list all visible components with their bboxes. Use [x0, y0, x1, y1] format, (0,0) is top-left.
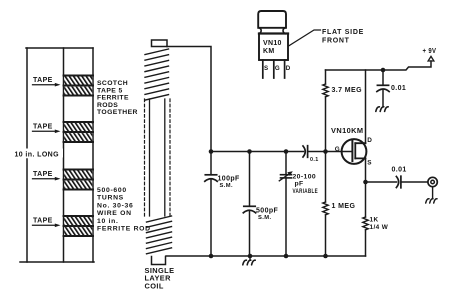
- wire: [325, 152, 327, 203]
- TAPE label 4 arrow: [33, 224, 61, 228]
- bypass capacitor C5 0.01: [377, 85, 389, 91]
- svg-text:0.1: 0.1: [310, 157, 319, 163]
- svg-text:pF: pF: [295, 181, 304, 188]
- svg-text:TAPE: TAPE: [33, 124, 53, 131]
- svg-text:S: S: [367, 160, 372, 167]
- svg-text:TAPE: TAPE: [33, 171, 53, 178]
- svg-text:1 MEG: 1 MEG: [332, 203, 356, 210]
- jack ground wire: [432, 187, 434, 199]
- wire: [249, 211, 251, 256]
- svg-text:G: G: [335, 146, 340, 153]
- coil top lead wire: [167, 47, 211, 152]
- tape band pair 4 (hatched): [64, 216, 94, 236]
- +9V arrow terminal: [428, 56, 434, 61]
- wire: [382, 70, 384, 85]
- node: C2 top: [247, 149, 252, 154]
- coil lower turns: [147, 216, 172, 254]
- junction dots: [209, 68, 386, 259]
- svg-text:KM: KM: [263, 48, 275, 55]
- resistor R1 3.7 MEG: [323, 84, 328, 97]
- svg-text:D: D: [286, 65, 291, 72]
- wire: [365, 230, 367, 256]
- svg-text:FERRITE: FERRITE: [97, 95, 129, 102]
- output coupling capacitor C6 0.01: [396, 176, 401, 188]
- leader line to FLAT SIDE FRONT: [289, 30, 321, 46]
- TAPE label 2 arrow: [33, 130, 61, 134]
- svg-text:500pF: 500pF: [256, 208, 279, 215]
- tape band pair 2 (hatched): [64, 122, 94, 142]
- node: C2 bottom / ground: [248, 254, 253, 259]
- source wire: [365, 158, 367, 217]
- TAPE label 3 arrow: [33, 177, 61, 181]
- svg-text:FERRITE ROD: FERRITE ROD: [97, 226, 151, 233]
- svg-text:TURNS: TURNS: [97, 195, 124, 202]
- dimension line (10 in. overall): [26, 48, 28, 148]
- TAPE label 1 arrow: [33, 83, 61, 87]
- svg-text:COIL: COIL: [145, 281, 164, 290]
- node: R2 bottom: [323, 254, 328, 259]
- svg-text:VN10KM: VN10KM: [331, 126, 363, 135]
- svg-text:100pF: 100pF: [218, 176, 241, 183]
- capacitor C2 500pF S.M.: [243, 206, 255, 213]
- top end line of rod assembly: [26, 47, 93, 49]
- svg-text:500-600: 500-600: [97, 187, 127, 194]
- coil form solid lines: [150, 99, 165, 216]
- variable capacitor C3 20-100pF: [279, 171, 293, 181]
- wire: [325, 215, 327, 256]
- wire: [382, 90, 384, 107]
- bottom end line of rod assembly: [20, 261, 94, 263]
- output jack J1: [428, 177, 437, 186]
- wire: [249, 152, 251, 207]
- svg-text:1K: 1K: [370, 217, 379, 224]
- Q1 channel bar and leads: [354, 143, 356, 158]
- svg-text:10 in.: 10 in.: [97, 218, 119, 225]
- svg-text:20-100: 20-100: [293, 174, 317, 181]
- bottom ground bus wire: [166, 255, 366, 257]
- node: coil / C1 / top bus: [209, 149, 214, 154]
- node: C1 bottom: [209, 254, 214, 259]
- wire: [285, 178, 287, 256]
- svg-text:FLAT SIDE: FLAT SIDE: [322, 29, 364, 36]
- svg-text:S.M.: S.M.: [220, 183, 234, 189]
- ferrite rod dashed outline under coil: [145, 99, 171, 216]
- wire: [325, 70, 327, 84]
- svg-text:S: S: [264, 65, 269, 72]
- coil upper turns: [145, 49, 169, 100]
- tape band pair 1 (hatched): [64, 76, 94, 96]
- node: gate / R1 / R2: [323, 149, 328, 154]
- node: source / C6 / R3: [363, 180, 368, 185]
- svg-text:0.01: 0.01: [392, 167, 407, 174]
- series capacitor C4 0.1: [303, 146, 351, 158]
- single layer coil: top form cap: [152, 40, 168, 47]
- node: rail / C5: [381, 68, 386, 73]
- wire: [210, 152, 212, 175]
- source output wire: [366, 181, 397, 183]
- svg-text:No. 30-36: No. 30-36: [97, 202, 134, 209]
- svg-text:TAPE: TAPE: [33, 218, 53, 225]
- svg-text:D: D: [367, 137, 372, 144]
- ferrite rod outline: [63, 48, 65, 262]
- svg-text:G: G: [275, 65, 280, 72]
- Q1 gate bar: [351, 141, 353, 162]
- svg-text:WIRE ON: WIRE ON: [97, 210, 132, 217]
- resistor R2 1 MEG: [323, 202, 328, 215]
- ground for bottom bus: [249, 256, 251, 260]
- svg-text:TAPE 5: TAPE 5: [97, 87, 123, 94]
- svg-text:0.01: 0.01: [391, 85, 406, 92]
- svg-text:SCOTCH: SCOTCH: [97, 80, 128, 87]
- drain wire: [365, 70, 367, 143]
- ground for J1: [426, 199, 437, 203]
- annotation: 10 in. LONG: [13, 149, 63, 158]
- capacitor C1 100pF S.M.: [205, 175, 217, 182]
- svg-text:3.7 MEG: 3.7 MEG: [332, 87, 363, 94]
- package leads: [263, 60, 285, 78]
- svg-text:10 in. LONG: 10 in. LONG: [15, 152, 60, 159]
- svg-text:TAPE: TAPE: [33, 77, 53, 84]
- svg-text:VN10: VN10: [263, 40, 282, 47]
- wire: [402, 181, 428, 183]
- coil bottom form cup: [152, 257, 166, 265]
- wire: [285, 152, 287, 175]
- svg-text:TOGETHER: TOGETHER: [97, 109, 138, 116]
- svg-text:+ 9V: + 9V: [423, 48, 437, 55]
- ground for C5: [376, 107, 388, 112]
- node: C3 top: [284, 149, 289, 154]
- MOSFET Q1 VN10KM circle: [342, 139, 367, 164]
- node: C3 bottom: [284, 254, 289, 259]
- svg-text:RODS: RODS: [97, 102, 118, 109]
- wire: [210, 180, 212, 256]
- top tank bus wire: [211, 151, 304, 153]
- +9V supply rail wire: [326, 61, 432, 70]
- svg-text:VARIABLE: VARIABLE: [293, 188, 319, 195]
- svg-text:S.M.: S.M.: [258, 215, 272, 221]
- wire: [325, 97, 327, 152]
- resistor R3 1K 1/4W: [363, 217, 368, 230]
- transistor package outline (VN10KM case): [258, 11, 288, 60]
- svg-text:1/4 W: 1/4 W: [370, 224, 389, 231]
- tape band pair 3 (hatched): [64, 170, 94, 190]
- svg-text:FRONT: FRONT: [322, 37, 350, 44]
